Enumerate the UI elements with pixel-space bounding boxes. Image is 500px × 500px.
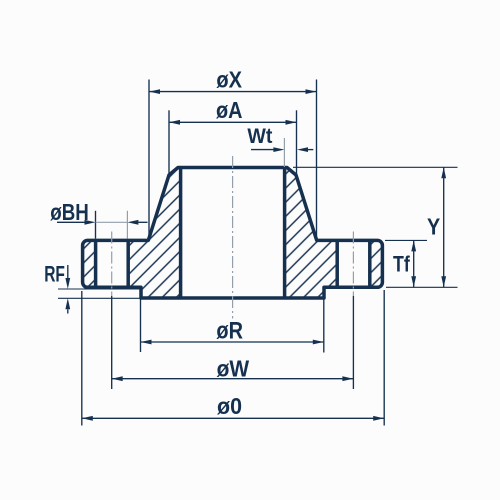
dimension Tf bbox=[385, 240, 427, 287]
dimension oW bbox=[112, 296, 354, 389]
dimension Y bbox=[293, 167, 458, 287]
dimension oX bbox=[149, 66, 317, 240]
svg-text:øR: øR bbox=[216, 318, 243, 345]
svg-text:Y: Y bbox=[427, 214, 440, 240]
svg-text:øA: øA bbox=[216, 97, 243, 123]
main vertical centerline bbox=[232, 156, 234, 319]
svg-text:ø0: ø0 bbox=[217, 393, 242, 419]
svg-text:øX: øX bbox=[216, 66, 242, 92]
dimension RF bbox=[44, 261, 141, 313]
svg-text:Tf: Tf bbox=[393, 251, 410, 276]
right bolt hole centerline bbox=[352, 232, 354, 297]
svg-text:RF: RF bbox=[44, 261, 65, 286]
dimension oA bbox=[169, 97, 297, 176]
svg-text:øBH: øBH bbox=[50, 199, 89, 225]
dimension oR bbox=[141, 299, 324, 353]
svg-text:øW: øW bbox=[217, 356, 250, 382]
svg-text:Wt: Wt bbox=[247, 124, 272, 148]
dimension Wt bbox=[247, 124, 313, 167]
dimension oO bbox=[82, 290, 384, 426]
left bolt hole centerline bbox=[111, 232, 113, 297]
dimension oBH bbox=[50, 199, 147, 239]
flange body cross-section with hatching bbox=[83, 168, 383, 299]
